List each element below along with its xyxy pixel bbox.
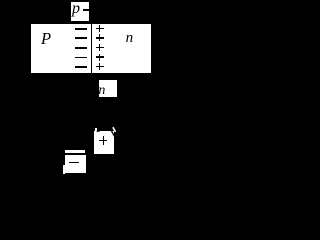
wire tick above plus box left corner xyxy=(95,128,96,132)
battery minus symbol xyxy=(69,162,80,163)
depletion charge plus 4 xyxy=(96,56,104,57)
battery negative terminal label box xyxy=(65,155,86,173)
battery long plate xyxy=(65,150,86,153)
wire diagonal above plus box right corner xyxy=(113,127,116,132)
wire crossing plus box top-right corner xyxy=(111,130,114,136)
depletion charge plus 1 xyxy=(96,28,104,29)
battery positive terminal label box xyxy=(94,131,114,154)
p terminal label text xyxy=(72,8,80,10)
depletion charge minus 2 xyxy=(75,37,87,39)
node n (n-type region label) xyxy=(126,37,134,39)
semiconductor body (p-n junction block) xyxy=(31,24,152,74)
node P (p-type region label) xyxy=(41,38,51,40)
depletion charge plus 2 xyxy=(96,37,104,38)
battery plus symbol xyxy=(99,140,108,141)
depletion charge minus 3 xyxy=(75,47,87,49)
wire notch at plus box top-left corner xyxy=(97,130,100,132)
junction line xyxy=(91,24,92,74)
wire stub crossing p label box xyxy=(83,9,89,12)
depletion charge plus 5 xyxy=(96,66,104,67)
p terminal label box xyxy=(71,2,89,21)
depletion charge minus 4 xyxy=(75,57,87,59)
depletion charge minus 5 xyxy=(75,66,87,68)
depletion charge plus 3 xyxy=(96,47,104,48)
wire step at minus box lower-left xyxy=(63,165,65,174)
n terminal label text xyxy=(98,90,105,92)
depletion charge minus 1 xyxy=(75,28,87,30)
n terminal label box xyxy=(99,80,117,97)
